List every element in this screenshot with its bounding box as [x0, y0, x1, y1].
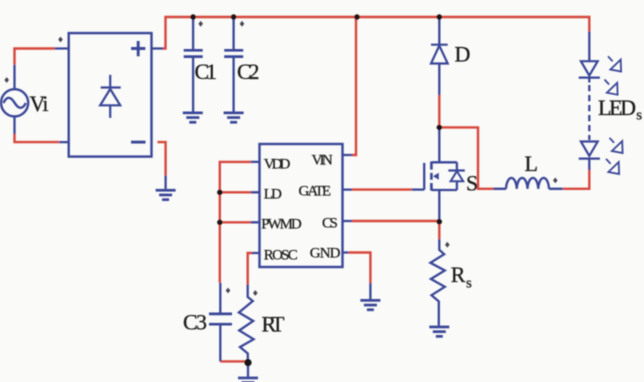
svg-text:C3: C3	[183, 310, 207, 335]
svg-text:LD: LD	[264, 187, 282, 203]
svg-text:C1: C1	[195, 59, 218, 84]
svg-text:VIN: VIN	[312, 153, 333, 169]
svg-text:R: R	[451, 262, 466, 287]
svg-text:s: s	[466, 276, 472, 292]
svg-text:GATE: GATE	[299, 184, 332, 200]
svg-text:GND: GND	[310, 246, 341, 262]
svg-text:PWMD: PWMD	[261, 217, 302, 233]
svg-text:L: L	[525, 151, 538, 176]
svg-text:s: s	[636, 108, 642, 124]
svg-text:Vi: Vi	[30, 91, 49, 116]
svg-text:LED: LED	[598, 95, 636, 120]
svg-text:S: S	[466, 171, 478, 196]
svg-text:C2: C2	[237, 59, 260, 84]
svg-text:VDD: VDD	[264, 157, 291, 173]
svg-text:CS: CS	[322, 216, 338, 232]
svg-text:ROSC: ROSC	[264, 248, 298, 264]
svg-text:D: D	[455, 42, 471, 67]
svg-text:RT: RT	[262, 312, 286, 337]
